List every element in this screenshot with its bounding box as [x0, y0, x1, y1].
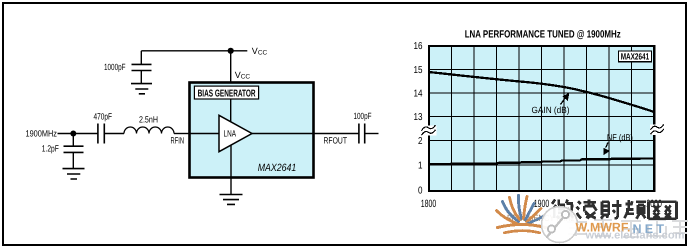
- chart gridlines: [429, 46, 654, 191]
- amplifier LNA triangle: [219, 115, 252, 151]
- op-amp U1: MAX2641 LNA block: [190, 83, 314, 178]
- wire: LNA down to ground: [230, 145, 232, 194]
- svg-text:2.5nH: 2.5nH: [139, 114, 158, 124]
- svg-text:GAIN (dB): GAIN (dB): [532, 105, 570, 115]
- svg-text:RFOUT: RFOUT: [324, 135, 348, 145]
- svg-text:470pF: 470pF: [94, 111, 113, 121]
- svg-text:13: 13: [414, 112, 423, 123]
- wire: C1.2pF to ground: [72, 152, 74, 168]
- svg-text:NF (dB): NF (dB): [607, 133, 633, 143]
- node A: input node 1900MHz: [26, 129, 77, 139]
- svg-text:16: 16: [414, 41, 423, 52]
- wire: Vcc node down to IC: [230, 51, 232, 86]
- curve GAIN (dB): [429, 72, 654, 112]
- inductor L 2.5nH: [124, 114, 174, 133]
- capacitor C 470pF series: [94, 111, 113, 143]
- svg-text:14: 14: [414, 89, 423, 100]
- wire: LNA output trace to RFOUT: [252, 133, 359, 135]
- wire: C1000pF to ground: [140, 71, 142, 84]
- svg-text:LNA: LNA: [224, 129, 237, 139]
- svg-text:1: 1: [418, 161, 423, 172]
- watermark: CJK characters (drawn strokes): [552, 200, 677, 219]
- axis break squiggle right: [650, 124, 664, 135]
- watermark: circle emblem: [542, 207, 578, 243]
- svg-text:BIAS GENERATOR: BIAS GENERATOR: [198, 89, 257, 100]
- y-axis labels: [414, 41, 423, 197]
- wire: node down to C1.2pF: [72, 134, 74, 147]
- wire: C470pF to inductor: [104, 133, 124, 135]
- wire: top Vcc rail: [141, 50, 247, 52]
- label GAIN (dB) with arrow: [532, 93, 570, 116]
- watermark: W.MWRF.NET text: [576, 221, 665, 237]
- svg-text:1.2pF: 1.2pF: [42, 143, 59, 153]
- ground: below 1.2pF: [63, 169, 85, 179]
- watermark: light echo glyph outlines: [567, 218, 688, 237]
- svg-text:RFIN: RFIN: [171, 135, 185, 145]
- svg-text:2: 2: [418, 136, 423, 147]
- glyph she: [601, 200, 621, 219]
- svg-text:www.elecfans.com: www.elecfans.com: [584, 229, 684, 241]
- label NF (dB) with arrow: [603, 133, 633, 156]
- glyph bo: [577, 200, 597, 219]
- glyph pin: [624, 200, 645, 219]
- watermark: fan logo: [497, 196, 546, 233]
- wire: input to C470pF: [58, 133, 98, 135]
- svg-text:MAX2641: MAX2641: [258, 162, 297, 174]
- wire: inductor to RFIN: [174, 133, 190, 135]
- x-axis labels: [421, 198, 662, 210]
- svg-text:0: 0: [418, 186, 423, 197]
- svg-text:1000pF: 1000pF: [104, 62, 126, 72]
- svg-text:100pF: 100pF: [354, 111, 372, 121]
- glyph wei: [552, 200, 573, 219]
- chart plot area: [429, 46, 654, 191]
- curve NF (dB): [429, 158, 654, 164]
- ground: below IC: [220, 195, 243, 205]
- capacitor C 1000pF decoupling: [104, 62, 152, 72]
- bias generator box: [194, 86, 258, 100]
- capacitor C 100pF output: [354, 111, 372, 144]
- capacitor C 1.2pF shunt: [42, 143, 84, 153]
- svg-text:1800: 1800: [421, 198, 437, 210]
- axis break squiggle left: [422, 125, 437, 136]
- node B: Vcc node: [228, 48, 234, 54]
- svg-text:MAX2641: MAX2641: [621, 52, 650, 62]
- chart frame: [429, 46, 654, 191]
- wire: rail down to C1000pF: [140, 51, 142, 65]
- ground: below 1000pF: [131, 84, 152, 94]
- svg-text:1900MHz: 1900MHz: [26, 129, 58, 139]
- wire: output stub: [365, 133, 379, 135]
- svg-text:15: 15: [414, 65, 423, 76]
- wire: RFIN trace inside block: [190, 133, 220, 135]
- wire: bias generator to LNA: [230, 99, 232, 122]
- svg-text:LNA PERFORMANCE TUNED @ 1900MH: LNA PERFORMANCE TUNED @ 1900MHz: [465, 28, 621, 40]
- legend box MAX2641: [619, 51, 652, 62]
- glyph wang: [648, 202, 676, 219]
